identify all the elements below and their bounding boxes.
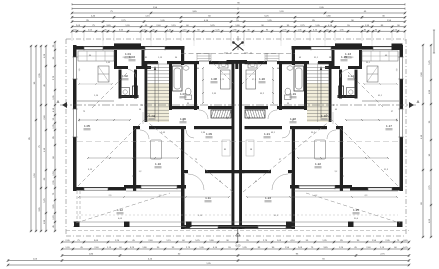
svg-text:1.06: 1.06 (180, 117, 186, 121)
bottom dimension lines (62, 241, 409, 243)
duct column (133, 86, 138, 97)
party wall left leaf (232, 60, 235, 229)
interior dim chain low (88, 157, 178, 159)
svg-text:1.14: 1.14 (348, 74, 354, 78)
door gap arc 1.11 (188, 174, 204, 190)
room 1.11 left wall (181, 174, 185, 229)
svg-text:1.03: 1.03 (129, 55, 135, 59)
wall y95 under shower room (119, 95, 139, 98)
svg-text:1.11: 1.11 (205, 196, 211, 200)
left dimension lines (30, 46, 32, 231)
party wall top T (227, 60, 248, 64)
wall y106 (169, 106, 199, 109)
level marker below party wall (237, 229, 239, 243)
window top-wall 1 (84, 47, 103, 50)
svg-text:1.02: 1.02 (122, 74, 128, 78)
door arc y126 right (186, 130, 194, 138)
window top-wall 2 (145, 47, 165, 50)
faint extension lines to wall (102, 33, 104, 46)
kitchen counter 1.05 (98, 66, 109, 82)
crossed mattock symbol above party wall (233, 42, 244, 51)
svg-text:0,00: 0,00 (236, 245, 241, 248)
faint fixture marks 1.09 (222, 140, 230, 156)
svg-text:1.18: 1.18 (290, 117, 296, 121)
svg-text:1.07: 1.07 (180, 92, 186, 96)
roof overhang dashed line over porches (181, 53, 295, 55)
svg-text:A: A (57, 99, 60, 104)
corner post at recess (181, 46, 184, 65)
door arc 1.03 (128, 70, 136, 78)
top dimension line 7 (detail) (72, 30, 405, 32)
window left-wall upper white gap (73, 57, 77, 79)
svg-text:1.15: 1.15 (341, 55, 347, 59)
wall x118 vertical lower (119, 70, 122, 99)
wall y61 recessed facade (145, 61, 159, 64)
top dimension lines (72, 3, 405, 5)
interior dimension chain horizontal (79, 119, 130, 121)
kitchen cabinets along top wall (78, 51, 114, 61)
bathtub 1.07 (173, 66, 183, 91)
svg-text:1.23: 1.23 (265, 196, 271, 200)
bed room 1.08 (221, 70, 231, 89)
party wall mid tie (232, 170, 245, 173)
chimney protrusion on top wall (114, 43, 141, 46)
wall between living 1.05 and room 1.10 (133, 126, 136, 191)
svg-text:1.25: 1.25 (353, 208, 359, 212)
staircase left wall (145, 61, 148, 122)
thin line kitchen (77, 100, 114, 102)
party wall right leaf (239, 60, 242, 229)
bottom wall room 1.10 (124, 185, 186, 189)
washbasin 1.08 (219, 62, 228, 68)
wall y170 between 1.09 and 1.11 (181, 170, 188, 173)
glass door room 1.10 (141, 185, 177, 188)
table 1.05 (151, 140, 162, 159)
wall y66 (1.02/1.03) (114, 66, 128, 69)
door arc y126 left (140, 130, 149, 139)
faint chain kitchen (79, 83, 112, 85)
svg-text:1.21: 1.21 (264, 132, 270, 136)
right dimension lines (422, 45, 424, 237)
svg-text:1.10: 1.10 (155, 162, 161, 166)
interior dimension chain vertical (202, 68, 204, 103)
roof overlay diagonal dashed lines (78, 114, 150, 186)
top extension lines (71, 33, 73, 41)
svg-text:A: A (417, 99, 420, 104)
svg-text:1.17: 1.17 (386, 124, 392, 128)
right unit (mirror of left) (238, 43, 404, 229)
left unit walls and fixtures (73, 43, 239, 229)
porch steps outside entry (197, 53, 211, 55)
toilet 1.07 (185, 95, 192, 100)
wall between 1.10 and 1.09 (181, 126, 184, 189)
svg-text:1.19: 1.19 (290, 92, 296, 96)
door arc hall to 1.09 (199, 110, 208, 119)
staircase treads (148, 63, 170, 65)
section line A-A (60, 104, 416, 106)
bath right wall (194, 61, 197, 110)
terrace decks, edge lines and pillars (76, 191, 78, 222)
faint chain hall vertical (142, 112, 144, 124)
svg-text:1.12: 1.12 (117, 208, 123, 212)
window left-wall lower white gap (73, 109, 77, 137)
wall y126 (133, 126, 140, 129)
wardrobe hatch below y106 near party wall (211, 110, 231, 118)
outer wall left (73, 45, 77, 191)
entry door leaf (199, 60, 209, 62)
staircase cream fill (148, 83, 170, 122)
svg-text:1.08: 1.08 (211, 77, 217, 81)
secondary level line (77, 141, 399, 143)
svg-text:1.05: 1.05 (84, 124, 90, 128)
outer wall bottom-left (living room) (73, 187, 126, 191)
window bottom-left wall (84, 188, 108, 191)
stair arrow (154, 68, 156, 118)
terrace dimension chain (79, 196, 229, 198)
svg-text:1.20: 1.20 (259, 77, 265, 81)
washbasin 1.07 (183, 66, 189, 70)
party wall bottom tie (232, 225, 245, 229)
svg-text:1.09: 1.09 (206, 132, 212, 136)
svg-text:1.22: 1.22 (315, 162, 321, 166)
room 1.03 right wall (142, 50, 145, 66)
staircase right wall (169, 61, 172, 110)
shower room right wall (134, 70, 137, 99)
svg-text:1.16: 1.16 (321, 114, 327, 118)
room 1.11 bottom wall (181, 225, 238, 229)
plot boundary dash-dot (65, 39, 67, 236)
top-right corner thick block (392, 44, 403, 51)
shower fixture (121, 88, 130, 97)
outer wall top (73, 46, 185, 50)
wall x114 vertical (114, 50, 117, 66)
window 1.11 bottom (190, 226, 218, 229)
svg-text:1.04: 1.04 (149, 114, 155, 118)
